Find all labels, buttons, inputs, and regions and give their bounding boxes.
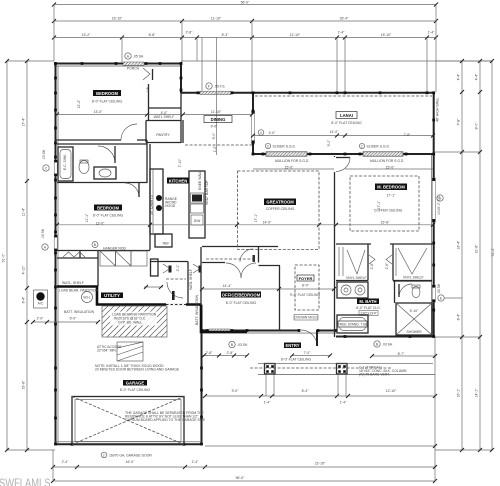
entry label	[206, 343, 312, 362]
svg-text:SLIDER S.G.D.: SLIDER S.G.D.	[273, 145, 296, 149]
window bath1 left	[54, 160, 57, 176]
svg-text:4: 4	[260, 131, 262, 135]
svg-text:13'-2": 13'-2"	[82, 33, 91, 37]
svg-text:22"x54" MIN.: 22"x54" MIN.	[97, 348, 117, 352]
right closet	[396, 248, 427, 276]
svg-text:17'-1": 17'-1"	[377, 200, 381, 209]
svg-text:9'-0": 9'-0"	[212, 132, 216, 140]
svg-text:8'-0" FLAT CEILING: 8'-0" FLAT CEILING	[93, 214, 124, 218]
svg-text:11'-10": 11'-10"	[211, 110, 222, 114]
svg-text:1'-4": 1'-4"	[264, 401, 272, 405]
greatroom label	[254, 199, 296, 225]
svg-text:51'-0": 51'-0"	[2, 253, 6, 262]
office label	[221, 284, 261, 305]
porch/front dim line	[203, 373, 437, 405]
foyer label	[290, 275, 321, 320]
bedroom1 bottom wall	[55, 139, 121, 141]
interior dim lines	[57, 114, 252, 116]
office right wall	[258, 247, 260, 263]
front window dim line	[202, 355, 247, 357]
svg-text:.05 SH: .05 SH	[41, 228, 45, 239]
bedroom1 label	[77, 90, 122, 114]
svg-text:.03 SH: .03 SH	[42, 149, 46, 160]
svg-text:UTILITY: UTILITY	[104, 293, 120, 298]
svg-text:2'-8": 2'-8"	[227, 351, 235, 355]
svg-text:.55 F.S.: .55 F.S.	[214, 85, 226, 89]
bottom wall m.bath	[336, 336, 435, 338]
slider2	[363, 152, 403, 156]
office door chevron	[193, 264, 200, 273]
svg-text:WATL. SHELF: WATL. SHELF	[62, 281, 84, 285]
slider1	[266, 152, 307, 156]
wall step down entry x181	[180, 62, 182, 93]
svg-text:VNYL SHELF: VNYL SHELF	[403, 276, 424, 280]
m.bath walls	[394, 281, 396, 303]
window m.bedroom right	[432, 178, 435, 222]
garage bottom wall	[55, 443, 202, 445]
foyer dashed	[295, 265, 319, 310]
washer dryer boxes	[100, 251, 116, 266]
svg-text:E.C. SINK: E.C. SINK	[63, 154, 67, 170]
bedroom2 label	[85, 205, 123, 226]
sliding door notes	[265, 143, 404, 169]
svg-text:26'-4": 26'-4"	[340, 17, 349, 21]
utility walls	[97, 250, 99, 286]
svg-text:13'-0": 13'-0"	[96, 222, 105, 226]
svg-text:2'-6": 2'-6"	[370, 262, 374, 270]
svg-text:PANTRY: PANTRY	[156, 133, 170, 137]
svg-text:1'-4": 1'-4"	[428, 30, 436, 34]
svg-text:15'-10": 15'-10"	[381, 33, 392, 37]
svg-text:DINING: DINING	[211, 117, 226, 122]
svg-text:8'-0" FLAT CEILING: 8'-0" FLAT CEILING	[281, 358, 312, 362]
svg-text:51'-2": 51'-2"	[491, 247, 495, 256]
svg-text:2'-4": 2'-4"	[62, 460, 70, 464]
dining tray dashed	[185, 144, 252, 146]
svg-text:.33 SH: .33 SH	[437, 283, 441, 294]
svg-text:17'-1": 17'-1"	[387, 194, 396, 198]
bedroom2 top-right door arc	[125, 183, 139, 197]
svg-text:1'-4": 1'-4"	[338, 30, 346, 34]
svg-text:11'-10": 11'-10"	[290, 33, 301, 37]
closets bottom	[336, 280, 368, 282]
svg-text:WATL SHELF: WATL SHELF	[189, 269, 193, 290]
wic shelf marks left closet	[339, 247, 365, 276]
window m.bath right	[432, 285, 435, 302]
svg-text:8'-0" FLAT CLG: 8'-0" FLAT CLG	[356, 306, 380, 310]
svg-text:7'-0": 7'-0"	[304, 351, 312, 355]
svg-text:2'-6": 2'-6"	[385, 262, 389, 270]
svg-text:FOYER: FOYER	[299, 276, 313, 281]
svg-text:SLIDER S.G.D.: SLIDER S.G.D.	[367, 145, 390, 149]
window office front	[209, 329, 230, 332]
porch dashed beam	[250, 367, 392, 369]
wc toilet	[412, 287, 420, 298]
bath1 top wall	[57, 143, 147, 145]
svg-text:2: 2	[361, 144, 363, 148]
svg-text:1'-4": 1'-4"	[340, 401, 348, 405]
svg-text:.03 SH: .03 SH	[382, 343, 393, 347]
window note circles	[41, 53, 462, 348]
svg-text:16'-4": 16'-4"	[457, 240, 461, 249]
AC pad	[34, 290, 48, 308]
garage separation wall thick	[57, 287, 201, 305]
porch columns	[265, 364, 276, 375]
wall left side	[55, 62, 57, 445]
dining dim line	[216, 38, 218, 156]
svg-text:8'-0" FLAT CEILING: 8'-0" FLAT CEILING	[92, 100, 123, 104]
bottom dimension lines	[51, 337, 437, 483]
pantry walls	[146, 120, 181, 122]
m bath tub	[337, 315, 368, 333]
svg-text:14'-4": 14'-4"	[223, 284, 232, 288]
wc door	[399, 284, 412, 297]
svg-text:7'-8": 7'-8"	[457, 118, 461, 126]
dining left wall lower	[182, 120, 184, 143]
svg-text:8'-0" FLAT CEILING: 8'-0" FLAT CEILING	[226, 301, 257, 305]
svg-text:17'-4": 17'-4"	[22, 117, 26, 126]
svg-text:16'-1": 16'-1"	[457, 388, 461, 397]
column note	[359, 352, 407, 377]
svg-text:W.H.: W.H.	[83, 296, 90, 300]
svg-text:KITCHEN: KITCHEN	[169, 178, 188, 183]
utility closet chevrons	[63, 252, 74, 257]
svg-text:8'-8": 8'-8"	[149, 33, 157, 37]
svg-text:.03 SH: .03 SH	[237, 343, 248, 347]
svg-text:15'-0": 15'-0"	[285, 166, 294, 170]
garage label	[120, 380, 151, 392]
svg-text:2'-4": 2'-4"	[192, 460, 200, 464]
w.h. circle	[82, 292, 93, 303]
front wall entry/office	[202, 330, 336, 332]
svg-text:15'-8": 15'-8"	[381, 221, 390, 225]
svg-text:F: F	[208, 84, 210, 88]
svg-text:20 MINUTES DOOR BETWEEN LIVING: 20 MINUTES DOOR BETWEEN LIVING AND GARAG…	[95, 368, 180, 372]
closet chevron doors	[369, 255, 375, 264]
svg-text:SHOWER: SHOWER	[406, 330, 422, 334]
svg-text:16'-0": 16'-0"	[126, 460, 135, 464]
entry door opening	[300, 329, 317, 333]
garage insulation hatch	[102, 306, 167, 337]
top dim extension verticals	[54, 5, 436, 93]
wall squares	[54, 62, 435, 446]
svg-text:BATT. INSULATION: BATT. INSULATION	[195, 294, 199, 325]
svg-text:9'-0": 9'-0"	[211, 125, 219, 129]
top dimension line row3	[52, 30, 438, 39]
svg-text:D/W: D/W	[194, 219, 201, 223]
svg-text:4'-0": 4'-0"	[269, 131, 277, 135]
svg-text:6'-0": 6'-0"	[70, 317, 78, 321]
svg-text:MULLION FOR S.G.D.: MULLION FOR S.G.D.	[275, 159, 309, 163]
svg-text:GARAGE: GARAGE	[126, 381, 145, 386]
svg-text:SWFLAMLS: SWFLAMLS	[0, 478, 51, 486]
kitchen counter	[150, 169, 163, 234]
hatch texts	[110, 312, 157, 326]
front-top wall entry porch + lanai top	[181, 92, 435, 94]
svg-text:22'-10": 22'-10"	[315, 462, 326, 466]
svg-text:BATT. INSULATION: BATT. INSULATION	[64, 310, 95, 314]
bedroom1 door	[143, 68, 150, 80]
wall top bedroom wing	[54, 63, 182, 65]
top dimension line row1 56'-0"	[52, 0, 438, 6]
svg-text:M. BATH: M. BATH	[359, 299, 376, 304]
utility door arc	[167, 282, 183, 298]
svg-text:8'-4": 8'-4"	[457, 313, 461, 321]
svg-text:10'x5'-0" F.S.: 10'x5'-0" F.S.	[437, 195, 441, 215]
mbed tray dashed	[350, 176, 419, 231]
svg-text:9'-0": 9'-0"	[232, 389, 240, 393]
m bedroom label	[374, 184, 407, 225]
svg-text:2: 2	[103, 453, 105, 457]
svg-text:56'-0": 56'-0"	[241, 0, 250, 4]
free stand tub label	[338, 321, 369, 327]
svg-text:11'-4": 11'-4"	[22, 207, 26, 216]
svg-text:8'-3": 8'-3"	[222, 33, 230, 37]
hall bifold chevron	[163, 264, 170, 273]
kitchen label	[167, 178, 189, 184]
fridge	[155, 234, 172, 247]
svg-text:12'-2": 12'-2"	[77, 99, 81, 108]
svg-text:2'-8": 2'-8"	[186, 30, 194, 34]
mbed bottom wall/closets top	[336, 243, 371, 245]
svg-text:8'-0" FLAT CEILING: 8'-0" FLAT CEILING	[120, 388, 151, 392]
m bath shower	[396, 303, 432, 335]
svg-text:BEDROOM: BEDROOM	[96, 91, 118, 96]
wall right side	[433, 92, 435, 337]
svg-text:.05 SH: .05 SH	[133, 55, 144, 59]
svg-text:GYPSUM BOARD APPLIED TO THE GA: GYPSUM BOARD APPLIED TO THE GARAGE SIDE	[125, 418, 206, 422]
svg-text:2: 2	[267, 144, 269, 148]
ac dim line	[33, 321, 98, 323]
svg-text:15'-0": 15'-0"	[386, 166, 395, 170]
svg-text:HANGER ROD: HANGER ROD	[103, 247, 127, 251]
hall dashes	[166, 278, 186, 280]
window bedroom2 left	[54, 235, 57, 251]
lanai left wall w window	[252, 92, 254, 154]
svg-text:16'-8": 16'-8"	[22, 380, 26, 389]
greatroom tray dashed	[238, 171, 320, 250]
svg-text:6'-4": 6'-4"	[22, 296, 26, 304]
hall wall x150	[149, 144, 151, 250]
svg-text:ENTRY: ENTRY	[285, 343, 299, 348]
svg-text:2'-1": 2'-1"	[176, 264, 180, 272]
svg-text:7'-8": 7'-8"	[404, 133, 412, 137]
svg-text:OFFICE/BEDROOM: OFFICE/BEDROOM	[222, 292, 261, 297]
bath1 fixtures	[58, 146, 116, 181]
m bath vanity	[337, 282, 368, 298]
svg-text:LOAD BEAR. PARTITION: LOAD BEAR. PARTITION	[59, 289, 99, 293]
svg-text:8'-0": 8'-0"	[475, 122, 479, 130]
left dimension verticals	[2, 59, 493, 452]
closet LIN wall	[148, 84, 150, 120]
svg-text:56'-0": 56'-0"	[236, 476, 245, 480]
window entry porch top	[200, 91, 231, 94]
svg-text:2'-0": 2'-0"	[37, 317, 45, 321]
svg-text:17'-1": 17'-1"	[254, 213, 258, 222]
greatroom/mbed wall	[334, 156, 336, 243]
svg-text:GREATROOM: GREATROOM	[266, 200, 294, 205]
svg-text:VNYL SHELF: VNYL SHELF	[346, 276, 367, 280]
svg-text:13'-0": 13'-0"	[94, 110, 103, 114]
svg-text:8'-0" FLAT CEILING: 8'-0" FLAT CEILING	[331, 121, 362, 125]
svg-text:HOOD: HOOD	[165, 204, 176, 208]
svg-text:KNEE WALL: KNEE WALL	[198, 171, 202, 190]
entry door leaf+arc	[301, 330, 317, 346]
svg-text:A/C: A/C	[38, 302, 44, 306]
m bath label	[356, 299, 380, 316]
bath1 bottom wall	[57, 182, 147, 184]
foyer right wall	[334, 243, 336, 337]
svg-text:16070 GA. GARAGE DOOR: 16070 GA. GARAGE DOOR	[109, 453, 152, 457]
svg-text:9'-0": 9'-0"	[327, 139, 331, 147]
svg-text:4'-10": 4'-10"	[22, 265, 26, 274]
lanai bottom wall / sliders	[252, 153, 435, 155]
svg-text:LANAI: LANAI	[340, 113, 353, 118]
lanai label	[258, 112, 411, 147]
svg-text:7'-10": 7'-10"	[178, 158, 182, 167]
svg-text:12'-10": 12'-10"	[386, 389, 397, 393]
svg-text:COFFER CEILING: COFFER CEILING	[266, 207, 295, 211]
bath1/hall wall	[146, 140, 148, 183]
svg-text:11'-1": 11'-1"	[85, 213, 89, 222]
garage attic hatch	[117, 342, 143, 361]
svg-text:36" CABNTS: 36" CABNTS	[150, 195, 154, 215]
svg-text:8'-0": 8'-0"	[302, 284, 310, 288]
island	[189, 171, 205, 238]
office left wall	[200, 247, 202, 305]
svg-text:M. BEDROOM: M. BEDROOM	[377, 185, 405, 190]
svg-text:FREE STAND. TUB: FREE STAND. TUB	[338, 322, 369, 326]
hall dim	[144, 286, 163, 288]
svg-text:14'-0": 14'-0"	[330, 130, 339, 134]
bedroom1 door opening + arc	[121, 124, 137, 140]
svg-text:8'-4": 8'-4"	[302, 389, 310, 393]
svg-text:31'-8": 31'-8"	[475, 244, 479, 253]
utility door gap in black wall	[166, 303, 186, 306]
svg-text:8'-7": 8'-7"	[398, 352, 406, 356]
utility label	[59, 289, 123, 315]
bedroom2 bottom wall	[57, 250, 150, 252]
porch roof edge	[258, 374, 435, 376]
window bedroom1 top	[123, 62, 144, 65]
svg-text:PORCH: PORCH	[127, 67, 140, 71]
svg-text:14'-0": 14'-0"	[263, 221, 272, 225]
svg-text:REF: REF	[163, 242, 170, 246]
svg-text:5'-10": 5'-10"	[410, 309, 419, 313]
svg-text:BEDROOM: BEDROOM	[97, 205, 119, 210]
svg-text:4'-4": 4'-4"	[475, 73, 479, 81]
utility top closet walls	[57, 257, 98, 259]
garage right wall	[201, 305, 203, 445]
office closet	[202, 246, 278, 248]
top dimension line row2	[52, 17, 438, 23]
svg-text:GYP. BD. WALL: GYP. BD. WALL	[118, 321, 142, 325]
svg-text:9'-0" FLAT CEILING: 9'-0" FLAT CEILING	[290, 293, 321, 297]
svg-text:48" HIGH WALL: 48" HIGH WALL	[436, 97, 440, 122]
svg-text:1'-2": 1'-2"	[213, 145, 217, 153]
svg-text:LIN.: LIN.	[146, 86, 150, 92]
garage notes	[95, 345, 206, 422]
svg-text:11'-10": 11'-10"	[211, 17, 222, 21]
svg-text:(W) #5 BARS VERT.: (W) #5 BARS VERT.	[359, 373, 390, 377]
svg-text:W/42" BAR TOP: W/42" BAR TOP	[205, 179, 209, 205]
hall closets walls	[150, 261, 188, 263]
svg-text:WATL SHELF: WATL SHELF	[154, 115, 175, 119]
circled note bedroom2	[92, 242, 98, 248]
garage door note	[101, 452, 152, 458]
garage door	[72, 397, 184, 445]
mbed door	[333, 157, 336, 172]
svg-text:4'-4": 4'-4"	[457, 73, 461, 81]
dining label	[204, 110, 232, 139]
linen closet	[151, 259, 159, 276]
svg-text:13'0"x13'4": 13'0"x13'4"	[360, 311, 378, 315]
svg-text:16'-10": 16'-10"	[112, 17, 123, 21]
greatroom-hall door	[240, 249, 253, 262]
svg-text:2'-8": 2'-8"	[206, 351, 214, 355]
svg-text:CROWN MOLD: CROWN MOLD	[294, 316, 318, 320]
right dimension verticals	[435, 59, 495, 452]
svg-text:MULLION FOR S.G.D.: MULLION FOR S.G.D.	[370, 159, 404, 163]
svg-text:14'-1": 14'-1"	[475, 388, 479, 397]
